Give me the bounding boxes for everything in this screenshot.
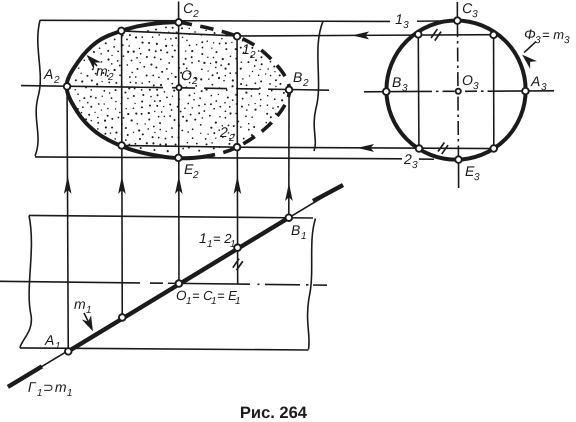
center line horizontal (dash-dot) [364,90,420,92]
node O2 [176,85,181,90]
svg-text:1: 1 [211,296,217,307]
svg-text:3: 3 [535,35,541,46]
stipple fill of ellipse m2 [75,27,285,153]
wire chord bottom edge in ellipse [122,145,238,147]
svg-text:m: m [74,296,86,312]
svg-text:1: 1 [37,388,43,399]
node 2_3 [416,145,423,152]
svg-text:A: A [44,332,54,348]
svg-text:2: 2 [219,124,228,140]
svg-text:1: 1 [395,11,403,27]
svg-text:2: 2 [191,76,198,87]
node B3 [383,88,390,95]
vertical projection line C-E-O [177,1,180,283]
svg-text:2: 2 [53,75,60,86]
svg-text:Рис. 264: Рис. 264 [240,404,308,422]
break line (left wavy edge, frontal plane strip) [35,20,40,156]
svg-text:O: O [462,72,473,88]
node A1 [65,348,72,355]
svg-text:1: 1 [235,296,241,307]
svg-text:⊃: ⊃ [43,380,54,395]
vertical projection line 1-2 [236,36,239,284]
plane strip right wavy edge [308,219,316,350]
wire connection line 2_2 to 2_3 with arrow [237,147,494,148]
svg-text:B: B [291,222,300,238]
svg-text:1: 1 [207,239,213,250]
node 11=21 [234,244,241,251]
node C3 [454,17,461,24]
svg-text:1: 1 [242,41,250,57]
ellipse m2 dashed arc (right side) [179,22,290,157]
node chord-top [118,28,125,35]
svg-text:2: 2 [192,9,199,20]
node B2 [286,86,293,93]
node 1_3 [415,31,422,38]
svg-text:A: A [43,66,53,82]
circle m3 outline [386,20,525,159]
node 2_2 [234,144,241,151]
svg-text:2: 2 [249,50,256,61]
svg-text:2: 2 [403,151,412,167]
plane strip top edge [29,215,313,218]
node E2 [175,155,182,162]
svg-text:3: 3 [412,160,418,171]
vertical projection line through chord point [120,31,123,318]
node A2 [64,83,71,90]
plane strip bottom edge [20,348,309,350]
node chord-top-right [490,32,497,39]
plane strip left wavy edge [20,215,31,348]
node on line at chord projection [119,314,126,321]
wire top tangent line through C2 and C3 [40,20,457,21]
svg-text:3: 3 [541,82,547,93]
wire frontal axis line through A2 O2 B2 [21,86,140,88]
node O1=C1=E1 [176,280,183,287]
svg-text:B: B [293,69,302,85]
svg-text:B: B [392,74,401,90]
svg-text:m: m [55,379,67,395]
svg-text:3: 3 [564,35,570,46]
svg-text:2: 2 [228,133,235,144]
break line (right wavy edge, frontal strip) [314,21,323,151]
node B1 [285,214,292,221]
svg-text:Γ: Γ [28,379,37,395]
line G1 thick end segment lower-left [8,366,42,387]
chord vertical right in circle [493,35,495,149]
svg-text:3: 3 [472,9,478,20]
svg-text:1: 1 [301,231,307,242]
svg-text:= m: = m [542,27,564,42]
svg-text:m: m [96,63,108,79]
wire bottom tangent line through E2 toward E3 [35,157,434,159]
horizontal center line (dash-dot) through O1 [0,281,327,285]
wire chord top edge in ellipse [122,31,238,36]
node chord-bottom [118,142,125,149]
vertical projection line A [67,86,68,351]
line G1 thick end segment upper-right [313,185,343,201]
svg-text:2: 2 [192,170,199,181]
svg-text:3: 3 [474,172,480,183]
svg-text:1: 1 [67,388,73,399]
node C2 [175,19,182,26]
node O3 [456,89,461,94]
svg-text:2: 2 [302,78,309,89]
ellipse m2 solid arc [67,22,207,158]
node E3 [455,156,462,163]
chord vertical left in circle [417,34,420,148]
svg-text:3: 3 [473,81,479,92]
tick on bottom chord [438,142,448,154]
svg-text:1: 1 [186,296,192,307]
svg-text:O: O [181,67,192,83]
up arrows on projection lines [64,176,72,194]
node chord-bottom-right [490,145,497,152]
svg-text:3: 3 [402,83,408,94]
node A3 [522,88,529,95]
wire connection line 1_2 to 1_3 with arrow [237,35,494,36]
svg-text:3: 3 [403,20,409,31]
svg-text:A: A [530,73,540,89]
center line vertical (dash-dot) [456,2,458,21]
svg-text:1: 1 [55,341,61,352]
node 1_2 [234,33,241,40]
line G1 (thin full extent) [8,185,343,387]
vertical projection line B [288,90,290,218]
svg-text:1: 1 [230,239,236,250]
tick on 1-2 projection line [233,259,243,271]
tick on top chord [431,29,441,41]
svg-text:2: 2 [107,72,114,83]
svg-text:1: 1 [199,230,207,246]
svg-text:1: 1 [86,305,92,316]
line m1/G1 thick main segment [68,218,289,352]
